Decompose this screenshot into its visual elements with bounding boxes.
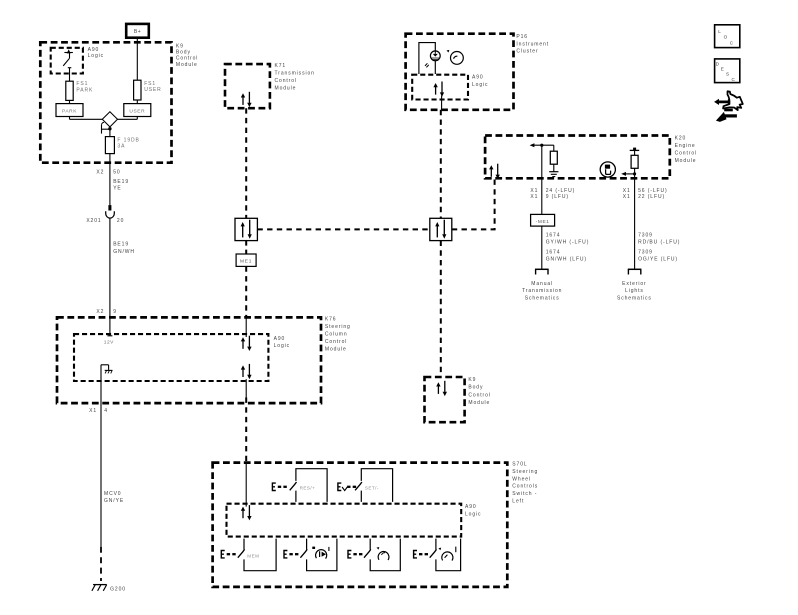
- svg-text:GN/YE: GN/YE: [104, 498, 124, 504]
- pin label X2 50: [96, 169, 120, 175]
- svg-text:Body: Body: [176, 49, 191, 55]
- svg-text:Transmission: Transmission: [275, 70, 315, 76]
- resistor pull-down (K20 left): [550, 151, 557, 164]
- svg-text:Module: Module: [675, 158, 697, 164]
- svg-text:B+: B+: [134, 29, 141, 35]
- svg-text:Control: Control: [675, 150, 697, 156]
- svg-text:20: 20: [117, 218, 124, 224]
- wire resistor to pin X1-56: [621, 168, 636, 179]
- svg-text:L: L: [718, 29, 721, 34]
- wire dashed splice down to K9: [440, 241, 442, 376]
- svg-text:K20: K20: [675, 135, 687, 141]
- svg-text:Control: Control: [468, 392, 490, 398]
- svg-text:Logic: Logic: [472, 82, 488, 88]
- switch cell SET/-: [338, 469, 393, 502]
- wire dashed splice to ME1: [245, 241, 247, 254]
- splice box with arrows (right, on bus): [430, 218, 452, 240]
- wire ground out of K76 to pin X1-4: [100, 365, 102, 547]
- svg-text:USER: USER: [144, 87, 162, 93]
- serial data arrows (K9 lower): [436, 381, 447, 396]
- legend box LOC: [715, 25, 740, 48]
- label F 19DB 3A: [117, 137, 139, 149]
- fuse FS1 PARK: [66, 81, 73, 100]
- supply symbol (K20 right): [630, 148, 640, 156]
- wire dashed bus to K20 riser: [452, 179, 495, 230]
- svg-text:7309: 7309: [638, 232, 653, 238]
- off-page connector (manual transmission): [535, 269, 549, 274]
- svg-text:Switch -: Switch -: [512, 491, 537, 497]
- resistor pull-up (K20 right): [631, 155, 638, 168]
- svg-text:MEM: MEM: [247, 553, 259, 558]
- wire PARK output to diamond node: [70, 117, 103, 120]
- svg-text:K9: K9: [468, 377, 476, 383]
- wire label 1674 GY/WH GN/WH: [546, 232, 590, 262]
- svg-text:O: O: [724, 35, 728, 40]
- svg-text:Exterior: Exterior: [622, 281, 646, 287]
- label K71 Transmission Control Module: [275, 63, 315, 92]
- svg-text:X1: X1: [623, 194, 631, 200]
- label S70L Steering Wheel Controls Switch - Left: [512, 462, 538, 505]
- fuse F19DB 3A: [105, 137, 114, 154]
- net label box -ME1: [531, 214, 555, 226]
- module K71 Transmission Control Module box: [225, 64, 270, 108]
- switch contact symbol at junction: [102, 122, 110, 133]
- svg-text:F 19DB: F 19DB: [117, 137, 139, 143]
- telltale lamp circuit loop: [419, 43, 435, 74]
- svg-text:X1: X1: [89, 408, 97, 414]
- wire dashed ground distribution: [100, 547, 102, 581]
- svg-text:SET/-: SET/-: [365, 486, 379, 491]
- svg-text:Steering: Steering: [325, 324, 351, 330]
- svg-text:Module: Module: [176, 62, 198, 68]
- serial data arrows (K71): [241, 92, 252, 107]
- label Manual Transmission Schematics: [522, 281, 562, 302]
- pin label X2 9: [96, 309, 117, 315]
- svg-text:24 (-LFU): 24 (-LFU): [546, 188, 576, 194]
- label A90 Logic (in K9): [88, 47, 104, 59]
- svg-text:G200: G200: [110, 587, 126, 593]
- svg-text:K76: K76: [325, 317, 337, 323]
- svg-text:PARK: PARK: [62, 108, 77, 114]
- svg-text:K9: K9: [176, 43, 184, 49]
- svg-text:X201: X201: [86, 218, 101, 224]
- svg-text:OG/YE (LFU): OG/YE (LFU): [638, 257, 678, 263]
- switch cell seek: [348, 539, 400, 571]
- svg-text:FS1: FS1: [76, 81, 88, 87]
- label P16 Instrument Cluster: [516, 34, 549, 54]
- module K76 Steering Column Control Module box: [57, 317, 321, 403]
- wire dashed ME1 down to K76: [245, 266, 247, 317]
- svg-text:56 (-LFU): 56 (-LFU): [638, 188, 668, 194]
- wire PARK branch vertical: [69, 68, 71, 104]
- svg-text:22 (LFU): 22 (LFU): [638, 194, 665, 200]
- svg-text:Logic: Logic: [274, 343, 290, 349]
- wire label BE19 YE: [113, 179, 129, 192]
- node diamond OR-junction: [102, 112, 117, 127]
- switch cell volume: [414, 539, 461, 571]
- svg-text:9 (LFU): 9 (LFU): [546, 194, 569, 200]
- svg-text:X1: X1: [530, 188, 538, 194]
- svg-text:Instrument: Instrument: [516, 41, 549, 47]
- svg-text:A90: A90: [274, 336, 286, 342]
- svg-text:Module: Module: [325, 346, 347, 352]
- svg-text:MCV0: MCV0: [104, 491, 122, 497]
- svg-text:USER: USER: [129, 108, 145, 114]
- svg-text:S70L: S70L: [512, 462, 527, 468]
- svg-text:Module: Module: [275, 85, 297, 91]
- svg-text:Left: Left: [512, 498, 524, 504]
- svg-text:YE: YE: [113, 186, 121, 192]
- logic block A90 Logic box (in K76): [74, 334, 268, 381]
- wire dashed K71 to splice box: [245, 108, 247, 218]
- module S70L Steering Wheel Controls Switch box: [213, 463, 508, 587]
- switch S (driver) inside A90: [63, 49, 73, 67]
- svg-text:P16: P16: [516, 34, 528, 40]
- fuse FS1 USER: [134, 80, 141, 100]
- svg-text:Cluster: Cluster: [516, 49, 538, 55]
- label FS1 PARK: [76, 81, 93, 93]
- svg-text:12V: 12V: [104, 340, 114, 346]
- svg-text:GN/WH (LFU): GN/WH (LFU): [546, 257, 587, 263]
- terminal box USER: [124, 104, 151, 117]
- svg-text:Control: Control: [325, 339, 347, 345]
- switch cell MEM: [221, 539, 276, 571]
- svg-text:X1: X1: [530, 194, 538, 200]
- svg-text:E: E: [721, 67, 724, 72]
- label A90 Logic (in K76): [274, 336, 290, 349]
- logic block A90 Logic box (in P16): [412, 75, 468, 100]
- wire BE19 GN/WH down to K76: [107, 218, 112, 335]
- svg-text:GN/WH: GN/WH: [113, 249, 135, 255]
- label 12V input: [104, 340, 114, 346]
- fuel pump icon (K20): [600, 162, 615, 177]
- svg-text:X1: X1: [623, 188, 631, 194]
- wire resistor to internal ground: [553, 164, 555, 171]
- svg-text:Controls: Controls: [512, 484, 538, 490]
- wire B+ to fuse USER: [136, 38, 138, 104]
- svg-text:Module: Module: [468, 400, 490, 406]
- svg-text:3A: 3A: [117, 144, 125, 150]
- wire clutch signal internal (K20 left): [530, 143, 554, 179]
- svg-text:Wheel: Wheel: [512, 476, 531, 482]
- svg-text:S: S: [726, 72, 729, 77]
- svg-text:-ME1: -ME1: [536, 219, 550, 225]
- wire K20 pin X1-24 down to -ME1: [541, 179, 543, 215]
- indicator lamp symbol: [425, 51, 440, 68]
- label K9 Body Control Module (lower): [468, 377, 490, 406]
- logic block A90 Logic box (in K9): [51, 48, 83, 74]
- svg-text:Engine: Engine: [675, 143, 696, 149]
- wire pin X2-50 down to connector X201: [109, 169, 111, 206]
- svg-text:ME1: ME1: [240, 259, 252, 265]
- svg-text:BE19: BE19: [113, 179, 129, 185]
- svg-text:1674: 1674: [546, 249, 561, 255]
- wire dashed K76 to S70L: [245, 398, 247, 463]
- wire P16 arrows to box edge: [441, 96, 443, 110]
- power symbol B+: [126, 24, 149, 38]
- off-page connector (exterior lights): [628, 269, 642, 274]
- svg-text:RD/BU (-LFU): RD/BU (-LFU): [638, 239, 680, 245]
- net label box ME1: [236, 254, 256, 266]
- svg-text:GY/WH (-LFU): GY/WH (-LFU): [546, 239, 590, 245]
- label FS1 USER: [144, 81, 162, 93]
- module P16 Instrument Cluster box: [406, 34, 514, 110]
- svg-text:9: 9: [113, 309, 117, 315]
- ground G200: [92, 585, 126, 593]
- terminal box PARK: [56, 104, 83, 117]
- svg-text:Lights: Lights: [625, 288, 644, 294]
- serial data arrows (K20): [489, 164, 500, 179]
- svg-text:Steering: Steering: [512, 469, 538, 475]
- legend navigation arrows icon: [714, 91, 743, 122]
- svg-text:A90: A90: [465, 504, 477, 510]
- junction dot below diamond: [108, 127, 111, 130]
- label X201 20: [86, 218, 124, 224]
- svg-text:1674: 1674: [546, 232, 561, 238]
- pin label X1 4: [89, 408, 108, 414]
- svg-text:K71: K71: [275, 63, 287, 69]
- wire USER output to diamond node: [117, 117, 137, 120]
- switch cell RES/+: [272, 469, 327, 502]
- wire label BE19 GN/WH: [113, 242, 135, 255]
- svg-text:A90: A90: [88, 47, 100, 53]
- label A90 Logic (in P16): [472, 75, 488, 88]
- label A90 Logic (in S70L): [465, 504, 481, 517]
- svg-text:X2: X2: [96, 169, 104, 175]
- svg-text:4: 4: [104, 408, 108, 414]
- wire -ME1 down to off-page: [541, 226, 543, 269]
- svg-text:X2: X2: [96, 309, 104, 315]
- svg-text:A90: A90: [472, 75, 484, 81]
- wire label 7309 RD/BU OG/YE: [638, 232, 680, 262]
- wire solid below K76 arrows: [245, 379, 247, 397]
- svg-text:Logic: Logic: [88, 53, 104, 59]
- svg-text:Logic: Logic: [465, 511, 481, 517]
- pin label X1 24 9: [530, 188, 575, 200]
- svg-text:50: 50: [113, 169, 120, 175]
- serial data arrows (P16): [433, 82, 444, 97]
- module K9 Body Control Module box (lower): [425, 377, 465, 422]
- wire dashed bus horizontal left-to-right: [257, 228, 429, 230]
- svg-text:Body: Body: [468, 385, 483, 391]
- label Exterior Lights Schematics: [617, 281, 652, 302]
- serial data arrows (K76 lower): [241, 364, 252, 379]
- wire junction to fuse F19DB: [109, 129, 111, 169]
- svg-text:Column: Column: [325, 332, 348, 338]
- svg-text:FS1: FS1: [144, 81, 156, 87]
- gauge symbol with needle: [447, 50, 464, 64]
- internal earth ground (K20): [549, 172, 558, 177]
- module K9 Body Control Module box: [40, 42, 171, 162]
- svg-text:PARK: PARK: [76, 87, 93, 93]
- connector X201 pin 20: [106, 205, 115, 218]
- serial data arrows (S70L): [241, 505, 252, 520]
- splice box with arrows (left, on bus): [235, 218, 257, 240]
- wire K20 pin X1-56 down to off-page: [634, 179, 636, 269]
- svg-text:Schematics: Schematics: [525, 295, 560, 301]
- wire dashed P16 to splice: [440, 110, 442, 219]
- serial data arrows (K76 upper): [241, 336, 252, 351]
- svg-text:Transmission: Transmission: [522, 288, 562, 294]
- label K76 Steering Column Control Module: [325, 317, 351, 353]
- legend box DESC: [715, 59, 740, 83]
- label K20 Engine Control Module: [675, 135, 697, 164]
- module K20 Engine Control Module box: [485, 136, 670, 179]
- wire solid into S70L to arrows: [245, 463, 247, 507]
- wire label MCV0 GN/YE: [104, 491, 124, 504]
- svg-text:RES/+: RES/+: [300, 486, 316, 491]
- switch cell play/pause: [284, 539, 337, 571]
- label K9 Body Control Module: [176, 43, 198, 68]
- logic block A90 Logic box (in S70L): [227, 504, 462, 537]
- svg-text:7309: 7309: [638, 249, 653, 255]
- pin label X1 56 22: [623, 188, 668, 200]
- svg-text:Manual: Manual: [531, 281, 553, 287]
- svg-text:BE19: BE19: [113, 242, 129, 248]
- wire solid into K76 to arrows: [245, 317, 247, 337]
- svg-text:Control: Control: [275, 78, 297, 84]
- internal ground symbol (K76): [101, 365, 113, 374]
- svg-text:Schematics: Schematics: [617, 295, 652, 301]
- svg-text:Control: Control: [176, 56, 198, 62]
